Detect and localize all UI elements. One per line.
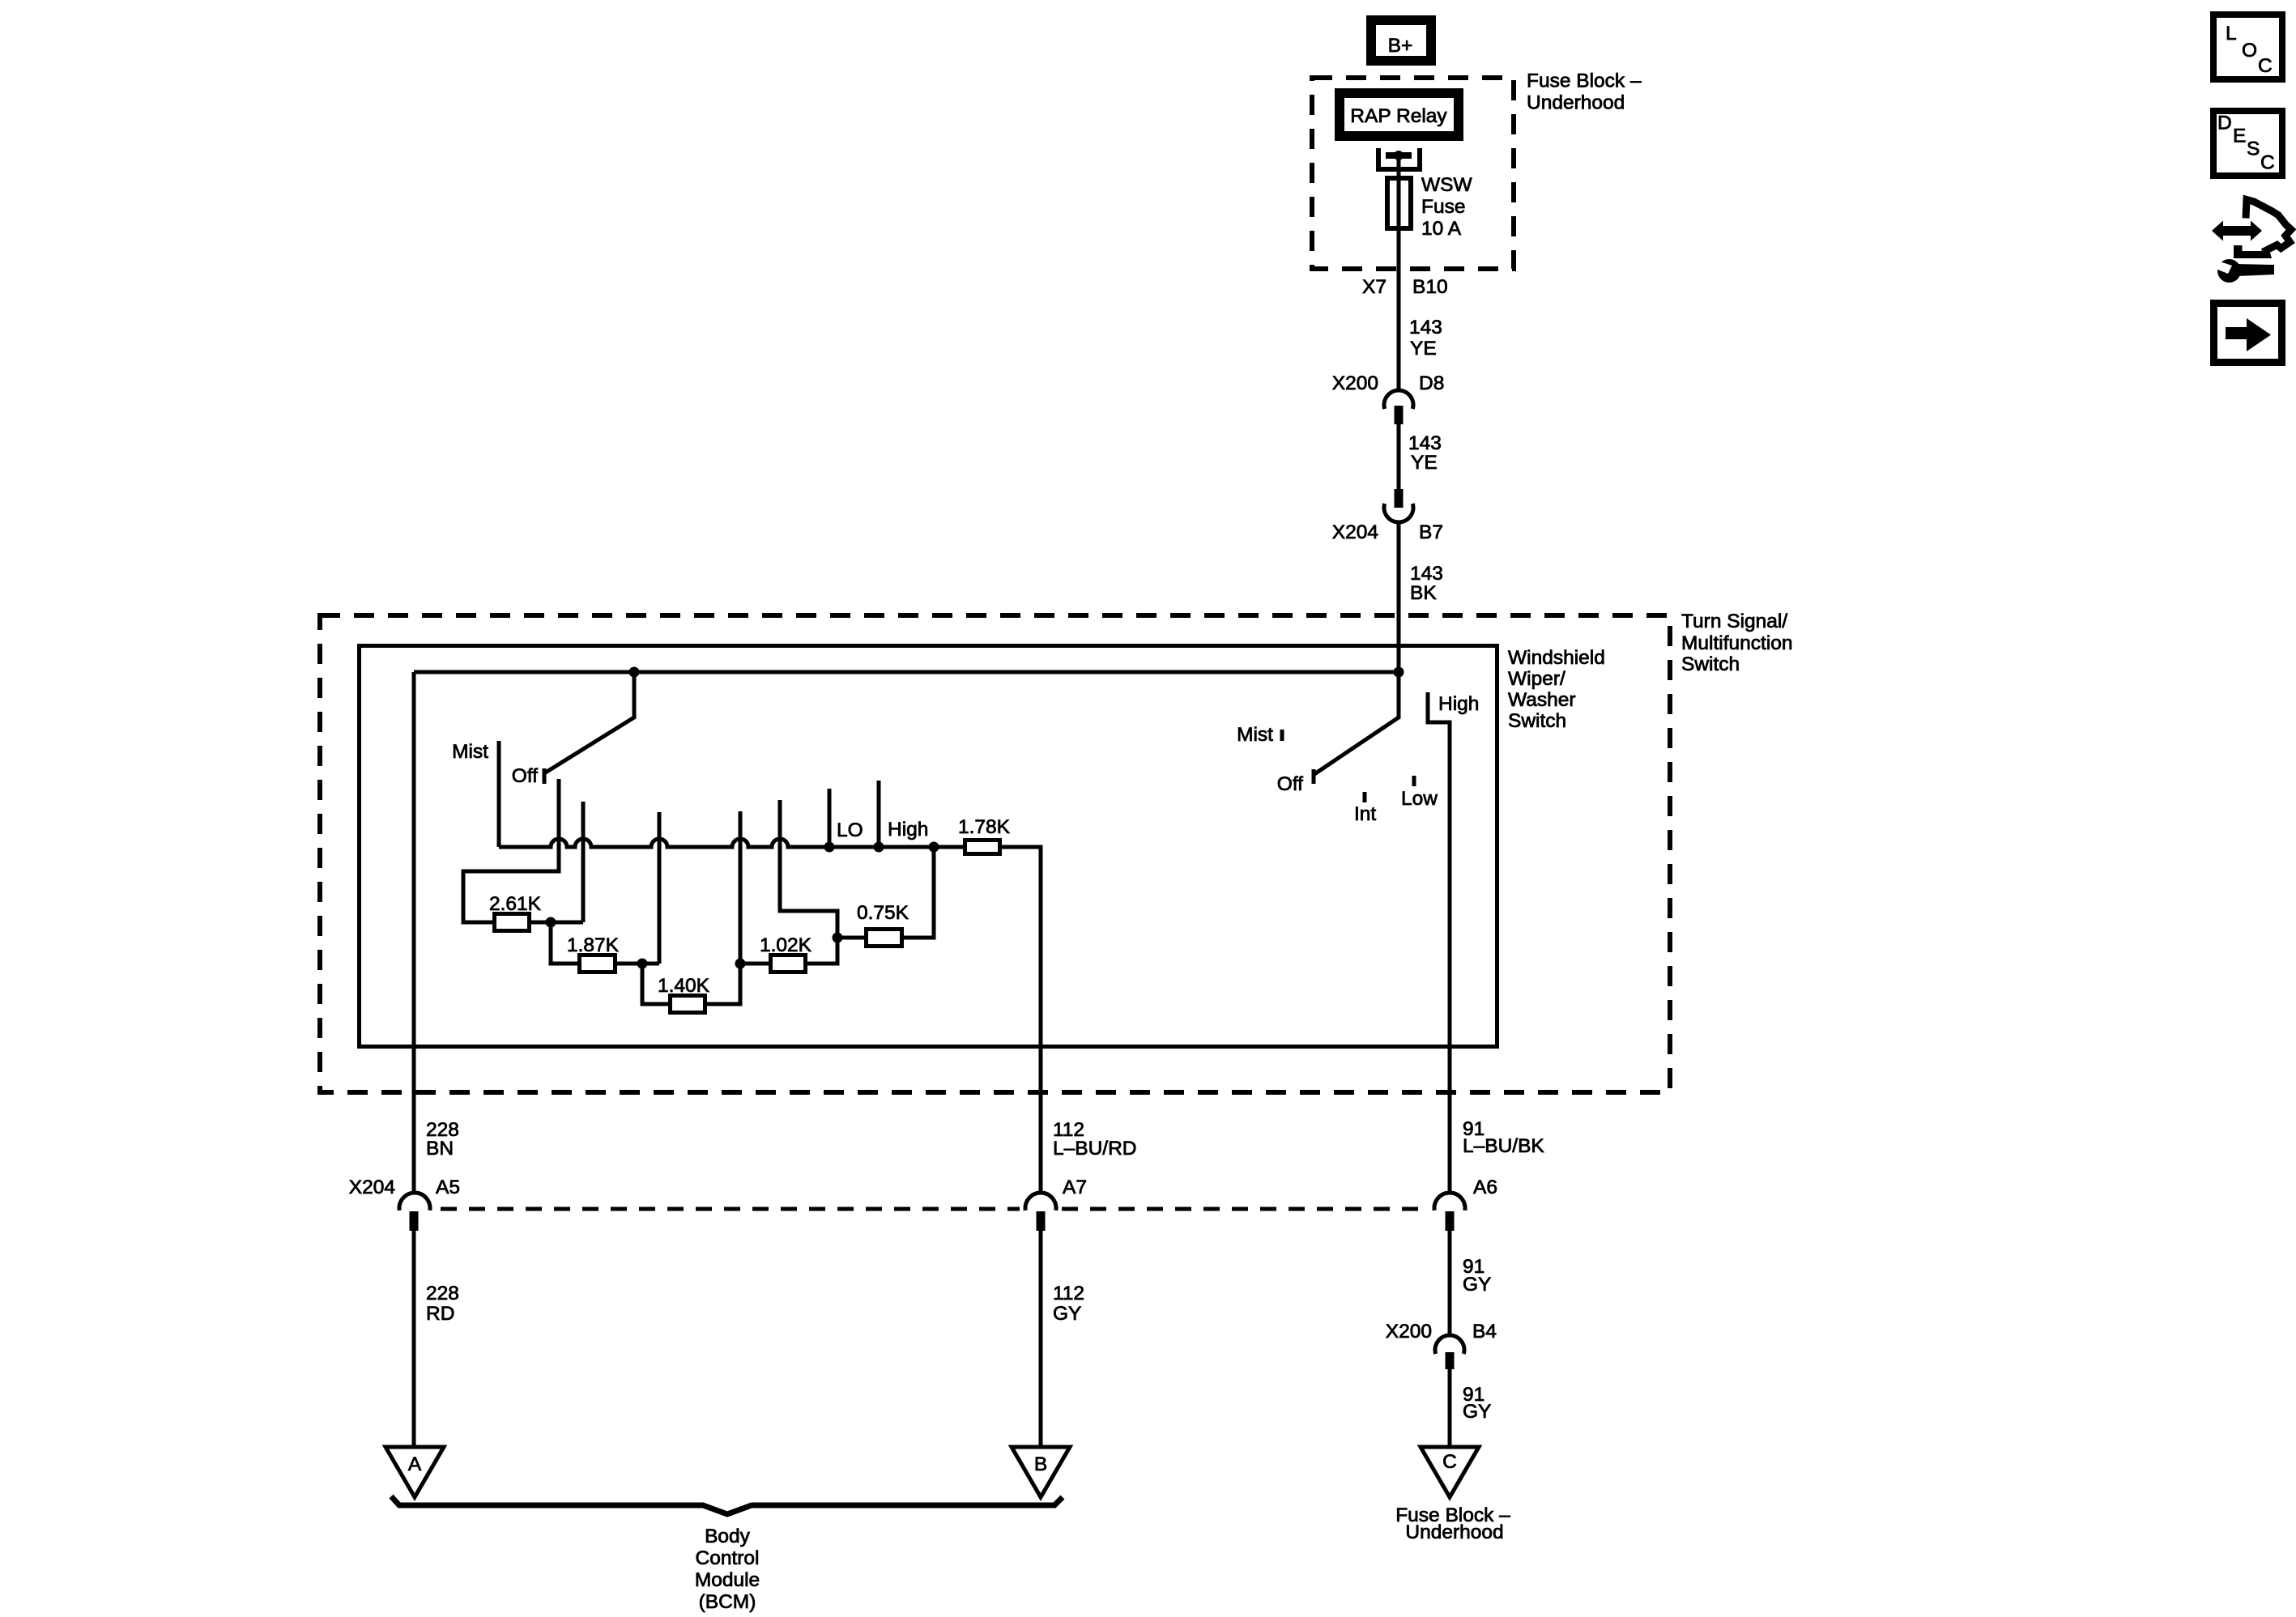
label X204 A5 [349, 1177, 460, 1198]
label circuit 143 YE second [1408, 432, 1442, 474]
connector X204 A5 [399, 1193, 430, 1231]
svg-text:2.61K: 2.61K [489, 893, 542, 915]
wire 1.40K right link [707, 964, 740, 1004]
svg-text:Body: Body [705, 1526, 751, 1547]
svg-text:Int: Int [1354, 803, 1376, 825]
wire 0.75K right link [904, 847, 934, 938]
svg-text:Fuse Block –: Fuse Block – [1527, 70, 1642, 92]
wire post C [658, 812, 662, 964]
wire 1.02K left link [740, 962, 769, 966]
relay contact terminal [1376, 148, 1422, 169]
label X200 B4 [1386, 1321, 1497, 1343]
label circuit 228 BN [426, 1119, 459, 1160]
svg-text:Turn Signal/: Turn Signal/ [1681, 611, 1787, 632]
svg-text:1.78K: 1.78K [958, 816, 1011, 838]
svg-text:High: High [888, 819, 928, 840]
connector X200 D8 [1384, 390, 1413, 424]
label body control module BCM [695, 1526, 760, 1613]
svg-text:B: B [1034, 1453, 1047, 1475]
contact Int right [1363, 792, 1367, 802]
wire drop to 1.40K [642, 964, 668, 1004]
svg-text:E: E [2233, 126, 2246, 147]
relay RAP Relay [1340, 93, 1459, 136]
node left switch common [629, 667, 640, 678]
icon LOC box [2213, 15, 2282, 79]
contact Off right [1312, 769, 1316, 784]
svg-text:Switch: Switch [1508, 710, 1566, 732]
label circuit 91 L-BU/BK [1463, 1118, 1544, 1157]
svg-text:Underhood: Underhood [1405, 1521, 1503, 1543]
node 1.40K junction [735, 959, 746, 969]
svg-text:GY: GY [1053, 1303, 1081, 1325]
connector A6 [1434, 1193, 1465, 1231]
label fuse block underhood [1527, 70, 1642, 114]
svg-text:S: S [2247, 138, 2260, 160]
svg-text:(BCM): (BCM) [699, 1591, 756, 1613]
svg-text:A: A [408, 1453, 422, 1475]
svg-text:B7: B7 [1419, 521, 1443, 543]
svg-text:BK: BK [1410, 582, 1437, 604]
svg-text:Fuse: Fuse [1421, 196, 1465, 218]
contact Low right [1412, 776, 1416, 786]
svg-text:143: 143 [1409, 317, 1442, 338]
svg-text:RAP Relay: RAP Relay [1350, 105, 1447, 127]
wire 143 YE from relay through fuse to X200 [1397, 155, 1401, 391]
svg-text:X204: X204 [349, 1177, 395, 1198]
svg-text:GY: GY [1463, 1274, 1491, 1296]
resistor 1.78K [965, 840, 1000, 854]
svg-text:L–BU/BK: L–BU/BK [1463, 1135, 1544, 1157]
wire High post [877, 781, 881, 847]
svg-text:A6: A6 [1473, 1177, 1497, 1198]
switch arm left wiper [544, 672, 634, 773]
wire switch feed horizontal [414, 670, 1399, 674]
icon DESC box [2213, 111, 2282, 176]
fuse block underhood dashed box [1312, 78, 1514, 269]
icon adjust hand outline [2238, 200, 2292, 255]
label circuit 91 GY lower [1463, 1384, 1491, 1423]
svg-text:228: 228 [426, 1283, 459, 1304]
brace body control module [391, 1496, 1063, 1514]
wire 2.61K right link [531, 921, 583, 925]
label circuit 91 GY upper [1463, 1256, 1491, 1296]
connector X204 B7 [1384, 489, 1413, 522]
connector row dashed line [441, 1207, 1430, 1211]
svg-text:YE: YE [1410, 338, 1437, 360]
svg-text:Mist: Mist [452, 741, 488, 763]
svg-text:Module: Module [695, 1569, 760, 1591]
node 1.78K junction [929, 842, 939, 853]
node 2.61K junction [546, 917, 556, 928]
wire post D [739, 811, 743, 964]
label X200 D8 [1332, 372, 1445, 394]
svg-text:YE: YE [1411, 452, 1438, 474]
resistor 1.02K [771, 955, 806, 972]
wire LO post [828, 789, 832, 847]
windshield wiper washer switch box [360, 646, 1497, 1047]
label X204 B7 [1332, 521, 1443, 543]
icon adjust hand double arrow [2212, 221, 2262, 241]
svg-text:Mist: Mist [1237, 724, 1273, 746]
off-page triangle C [1421, 1447, 1479, 1497]
svg-text:Wiper/: Wiper/ [1508, 668, 1565, 690]
label X7 B10 [1362, 276, 1448, 298]
wire drop to 1.87K [551, 922, 577, 964]
wire 1.02K right link [807, 938, 837, 964]
svg-text:Off: Off [1277, 773, 1303, 795]
off-page triangle A [386, 1447, 444, 1497]
label fuse block underhood bottom [1395, 1504, 1510, 1543]
wire 143 BK [1397, 522, 1401, 672]
svg-text:10 A: 10 A [1421, 218, 1462, 240]
wire resistor bus [499, 839, 963, 847]
off-page triangle B [1012, 1447, 1070, 1497]
connector X200 B4 [1435, 1335, 1464, 1369]
svg-text:112: 112 [1053, 1283, 1084, 1304]
svg-text:C: C [2260, 152, 2275, 174]
wire 112 GY [1039, 1231, 1043, 1447]
resistor 1.87K [580, 955, 616, 972]
svg-text:L: L [2226, 23, 2237, 45]
label circuit 143 YE [1409, 317, 1442, 360]
svg-text:A7: A7 [1063, 1177, 1087, 1198]
label circuit 143 BK [1410, 563, 1443, 604]
svg-text:X204: X204 [1332, 521, 1378, 543]
contact Off left [543, 768, 547, 784]
wire 228 RD [412, 1231, 416, 1447]
wire Mist post left [497, 741, 501, 847]
svg-text:X200: X200 [1386, 1321, 1432, 1343]
label turn signal multifunction switch [1681, 611, 1793, 675]
node 0.75K junction [833, 933, 843, 943]
svg-text:O: O [2242, 40, 2257, 62]
resistor 1.40K [671, 996, 705, 1013]
svg-text:X200: X200 [1332, 372, 1378, 394]
svg-text:BN: BN [426, 1138, 454, 1160]
battery feed B+ [1371, 20, 1431, 61]
svg-text:1.87K: 1.87K [567, 934, 620, 956]
wire post E [780, 800, 837, 938]
contact Mist right [1280, 730, 1284, 741]
svg-text:L–BU/RD: L–BU/RD [1053, 1138, 1136, 1160]
svg-text:143: 143 [1410, 563, 1443, 585]
label windshield wiper washer switch [1508, 647, 1605, 732]
wire High contact to 91 wire [1428, 692, 1450, 1194]
svg-text:X7: X7 [1362, 276, 1387, 298]
label circuit 112 L-BU/RD [1053, 1119, 1136, 1160]
svg-text:Windshield: Windshield [1508, 647, 1605, 669]
connector A7 [1025, 1193, 1056, 1231]
switch arm right wiper [1314, 672, 1399, 774]
svg-text:WSW: WSW [1421, 174, 1472, 196]
wire 1.78K to 112 corner [1002, 847, 1041, 1194]
wire 91 GY lower [1448, 1369, 1452, 1447]
icon wrench [2216, 259, 2274, 283]
svg-text:1.40K: 1.40K [658, 975, 710, 997]
svg-text:0.75K: 0.75K [857, 902, 909, 924]
resistor 0.75K [867, 930, 902, 947]
label circuit 112 GY [1053, 1283, 1084, 1325]
svg-text:RD: RD [426, 1303, 454, 1325]
wire 91 GY upper [1448, 1231, 1452, 1335]
node LO [824, 842, 835, 853]
svg-text:B10: B10 [1412, 276, 1448, 298]
icon forward arrow box [2214, 304, 2282, 363]
wire 143 YE X200 to X204 [1397, 424, 1401, 489]
svg-text:1.02K: 1.02K [760, 934, 812, 956]
fuse WSW 10 A [1387, 178, 1411, 228]
wire 1.87K right link [617, 962, 659, 966]
svg-text:C: C [1442, 1451, 1457, 1473]
svg-text:High: High [1438, 693, 1479, 715]
svg-text:Off: Off [512, 765, 538, 787]
svg-text:D: D [2217, 113, 2232, 134]
wire 0.75K left link [837, 936, 864, 940]
svg-text:Underhood: Underhood [1527, 92, 1625, 114]
turn signal multifunction switch dashed box [320, 615, 1670, 1092]
wire off post to 2.61K [463, 779, 559, 922]
label circuit 228 RD [426, 1283, 459, 1325]
svg-text:GY: GY [1463, 1401, 1491, 1423]
wire 228 BN [412, 672, 416, 1194]
svg-text:Control: Control [696, 1547, 760, 1569]
svg-text:143: 143 [1408, 432, 1442, 454]
node High [874, 842, 884, 853]
svg-text:D8: D8 [1419, 372, 1444, 394]
svg-text:C: C [2258, 55, 2273, 77]
node 1.87K junction [637, 959, 648, 969]
svg-text:B+: B+ [1388, 35, 1413, 57]
svg-text:B4: B4 [1472, 1321, 1497, 1343]
svg-text:Multifunction: Multifunction [1681, 632, 1793, 654]
svg-text:Washer: Washer [1508, 689, 1576, 711]
svg-text:A5: A5 [436, 1177, 460, 1198]
wire post B [581, 802, 586, 922]
svg-text:LO: LO [837, 819, 863, 841]
label WSW Fuse 10 A [1421, 174, 1472, 240]
svg-text:Low: Low [1401, 788, 1438, 810]
node right switch common [1394, 667, 1404, 678]
svg-text:Switch: Switch [1681, 653, 1740, 675]
resistor 2.61K [495, 914, 530, 931]
